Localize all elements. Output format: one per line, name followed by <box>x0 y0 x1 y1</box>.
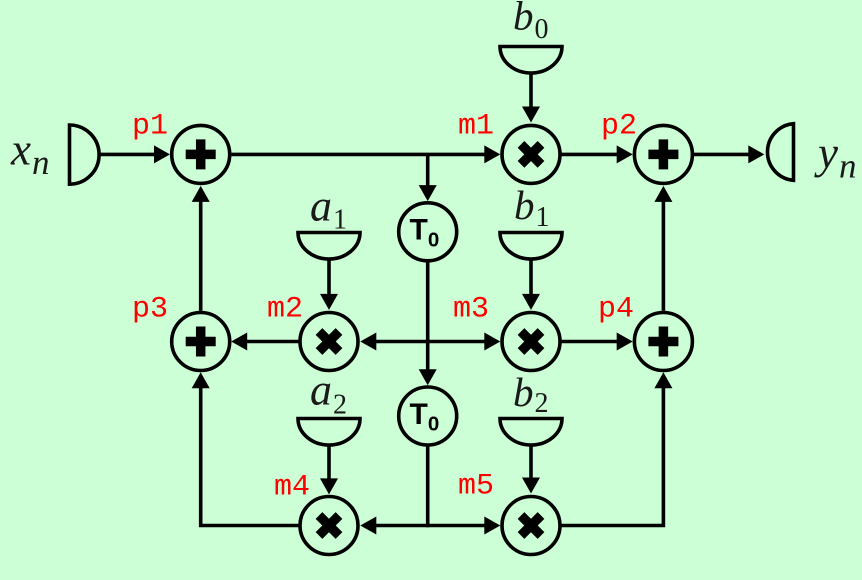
wire p2 to y_n <box>694 153 750 157</box>
svg-text:m3: m3 <box>453 293 489 327</box>
svg-text:a2: a2 <box>310 366 347 421</box>
svg-text:p3: p3 <box>132 293 168 327</box>
svg-text:xn: xn <box>10 125 49 183</box>
times sign m3 <box>521 332 541 352</box>
coefficient source a1 <box>298 233 360 260</box>
svg-text:a1: a1 <box>310 182 347 236</box>
arrowhead from b2 into m5 <box>522 478 540 494</box>
wire m3 to p4 <box>562 340 619 344</box>
svg-text:b1: b1 <box>514 182 550 233</box>
wire b0 to m1 <box>529 73 533 108</box>
wire node B to m2 <box>375 340 428 344</box>
wire a1 to m2 <box>327 259 331 296</box>
adder p4 <box>634 313 692 371</box>
arrowhead into p1 <box>154 145 170 163</box>
wire p1 to m1 <box>232 153 487 157</box>
svg-text:T0: T0 <box>410 214 440 252</box>
wire p3 to p1 <box>199 201 203 311</box>
multiplier m1 <box>502 125 560 183</box>
delay T1 <box>399 203 457 261</box>
wire a2 to m4 <box>327 445 331 480</box>
svg-text:m4: m4 <box>274 471 310 505</box>
arrowhead into p3 bottom <box>192 372 210 388</box>
wire b1 to m3 <box>529 259 533 296</box>
arrowhead into p2 bottom <box>654 186 672 202</box>
multiplier m4 <box>300 497 358 555</box>
svg-text:p4: p4 <box>598 293 634 327</box>
arrowhead into m4 <box>360 517 376 535</box>
arrowhead from b1 into m3 <box>522 294 540 310</box>
adder p1 <box>172 125 230 183</box>
arrowhead into p4 left <box>617 333 633 351</box>
wire node C to m5 <box>428 524 486 528</box>
arrowhead into p2 <box>617 145 633 163</box>
arrowhead into p1 bottom <box>192 186 210 202</box>
times sign m1 <box>521 144 541 164</box>
wire node B to m3 <box>428 340 486 344</box>
arrowhead into m3 <box>484 333 500 351</box>
wire node C to m4 <box>375 524 428 528</box>
svg-text:b2: b2 <box>513 369 549 419</box>
coefficient source b2 <box>500 419 562 446</box>
svg-text:b0: b0 <box>513 0 549 45</box>
svg-text:p1: p1 <box>132 110 168 144</box>
wire delay T2 to node C <box>426 447 430 528</box>
plus sign p1 <box>186 139 216 169</box>
arrowhead into p4 bottom <box>654 372 672 388</box>
coefficient source b1 <box>500 233 562 260</box>
wire m1 to p2 <box>562 153 619 157</box>
coefficient source b0 <box>500 47 562 74</box>
delay T2 <box>399 387 457 445</box>
input port x_n <box>70 125 100 184</box>
times sign m5 <box>521 516 541 536</box>
multiplier m5 <box>502 497 560 555</box>
arrowhead into m2 <box>360 333 376 351</box>
wire p4 to p2 <box>662 201 666 311</box>
multiplier m2 <box>300 313 358 371</box>
wire m2 to p3 <box>246 340 299 344</box>
multiplier m3 <box>502 313 560 371</box>
arrowhead into y_n <box>748 145 764 163</box>
times sign m4 <box>319 516 339 536</box>
adder p3 <box>172 313 230 371</box>
adder p2 <box>634 125 692 183</box>
arrowhead into m5 <box>484 517 500 535</box>
wire m4 to p3 <box>201 387 299 526</box>
arrowhead from b0 into m1 <box>522 107 540 123</box>
arrowhead into m1 <box>484 145 500 163</box>
wire m5 to p4 <box>562 387 664 526</box>
coefficient source a2 <box>298 419 360 446</box>
plus sign p2 <box>648 139 678 169</box>
svg-text:yn: yn <box>814 128 856 186</box>
plus sign p4 <box>648 327 678 357</box>
arrowhead into T1 <box>419 185 437 201</box>
wire node A to delay T1 <box>426 154 430 187</box>
svg-text:m2: m2 <box>267 293 303 327</box>
arrowhead from a2 into m4 <box>320 478 338 494</box>
svg-text:m5: m5 <box>458 470 494 504</box>
arrowhead into T2 <box>419 369 437 385</box>
arrowhead into p3 right <box>231 333 247 351</box>
plus sign p3 <box>186 327 216 357</box>
arrowhead from a1 into m2 <box>320 294 338 310</box>
wire delay T1 to delay T2 <box>426 262 430 371</box>
svg-text:T0: T0 <box>410 398 440 436</box>
svg-text:m1: m1 <box>458 110 494 144</box>
times sign m2 <box>319 332 339 352</box>
output port y_n <box>767 124 793 181</box>
svg-text:p2: p2 <box>601 110 637 144</box>
wire b2 to m5 <box>529 445 533 479</box>
wire x_n to p1 <box>99 153 156 157</box>
